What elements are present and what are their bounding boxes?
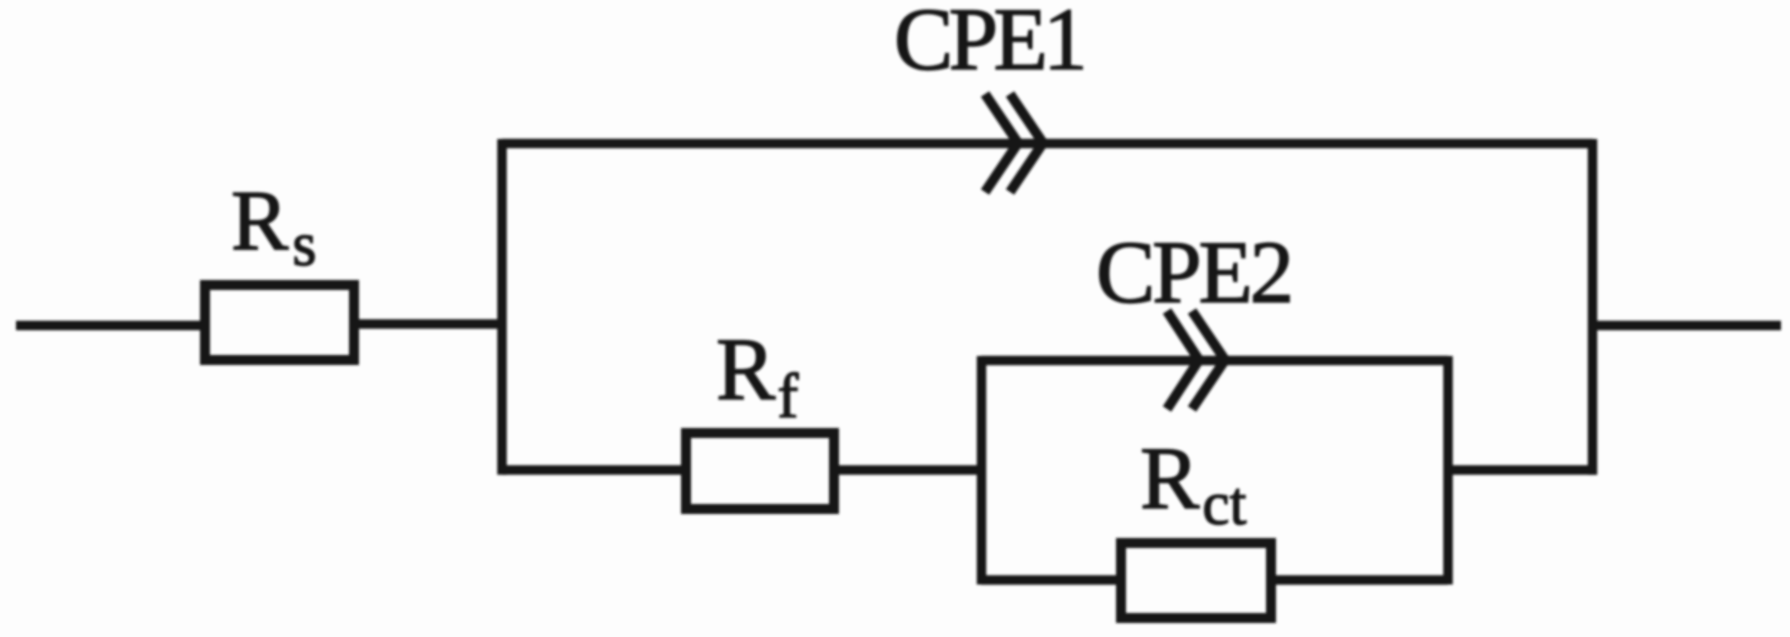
svg-text:CPE2: CPE2 (1096, 224, 1291, 322)
svg-text:CPE1: CPE1 (894, 0, 1083, 89)
svg-text:Rf: Rf (716, 321, 798, 431)
svg-text:Rs: Rs (231, 172, 317, 279)
svg-text:Rct: Rct (1140, 430, 1246, 538)
